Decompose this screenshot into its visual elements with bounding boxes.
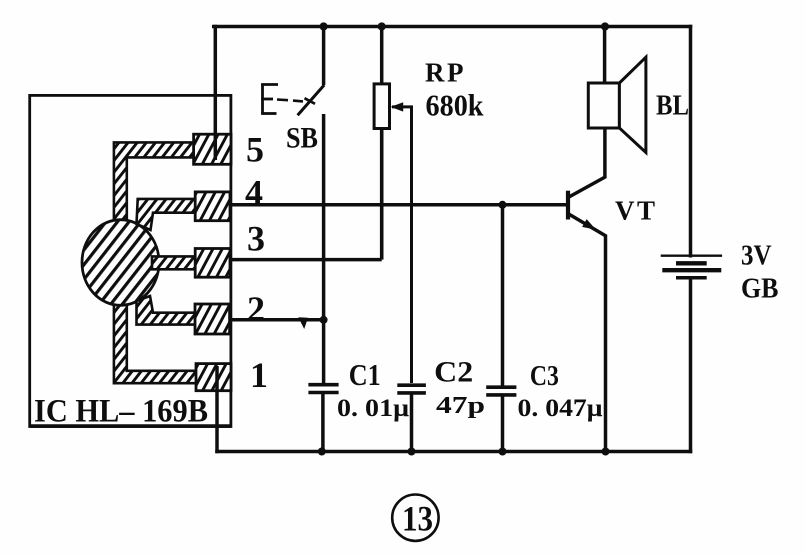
speaker BL horn [619,57,646,152]
IC outline box [30,95,231,426]
IC label HL-169B [34,394,208,430]
capacitor C1 plates [308,385,338,393]
svg-text:T: T [637,196,655,226]
wire left rail upper (top rail to IC pin 5 pad) [214,27,218,151]
svg-text:47p: 47p [436,392,485,419]
pad pin 4 [195,192,230,221]
svg-text:680k: 680k [426,88,485,123]
trace to pad 2 [137,296,197,325]
potentiometer RP: bottom lead to pin3 line [380,129,384,260]
label SB [286,122,318,155]
svg-text:1: 1 [250,355,268,395]
wire pin5 stub through pad [214,134,218,160]
svg-text:C2: C2 [434,356,473,389]
capacitor C3 bottom lead [501,396,505,451]
pin label 2 [247,289,265,329]
label C2 [434,356,473,389]
label 0.047u [518,393,604,422]
speaker BL box [588,83,619,128]
switch SB: lever [298,85,325,115]
node bottom rail / VT emitter [602,448,610,456]
wire right rail upper (top rail to battery +) [689,27,693,256]
IC chip blob (epoxy die) [82,220,159,306]
label VT [615,196,655,226]
svg-text:IC HL– 169B: IC HL– 169B [34,394,208,430]
svg-text:R: R [425,58,445,88]
svg-text:C1: C1 [349,358,381,392]
potentiometer RP: top lead [380,27,384,85]
battery GB plate 1 long [661,254,722,256]
svg-text:P: P [447,58,464,88]
pad pin 1 [196,364,231,391]
node bottom rail / C1 [318,448,326,456]
battery GB plate 3 long thick [662,268,721,272]
label GB [741,274,779,305]
wire right rail lower (battery - to bottom rail) [689,278,693,452]
node bottom rail / C3 [499,448,507,456]
pin label 3 [247,219,265,259]
svg-text:0. 047μ: 0. 047μ [518,393,604,422]
label 0.01u [337,393,410,422]
node top rail / RP [378,22,386,30]
label C1 [349,358,381,392]
label BL [656,90,689,122]
svg-text:2: 2 [247,289,265,329]
switch SB: lower contact wire down to C1 [322,114,326,383]
label 3V [741,241,772,272]
svg-text:13: 13 [402,499,433,539]
label C3 [530,361,559,392]
svg-text:BL: BL [656,90,689,122]
pin label 4 [245,173,263,213]
svg-text:5: 5 [246,130,264,170]
svg-text:3V: 3V [741,241,772,272]
figure number badge 13 [392,495,438,541]
trace to pad 3 [152,256,197,269]
wire pin3 line to RP bottom [230,258,382,262]
label 680k [426,88,485,123]
wire left rail lower (IC pin 1 pad to bottom rail) [215,377,219,452]
svg-text:SB: SB [286,122,318,155]
transistor VT collector [569,128,605,197]
svg-text:0. 01μ: 0. 01μ [337,393,410,422]
wire pin4 line to transistor base [230,203,567,207]
potentiometer RP: wiper arm wire [392,107,412,383]
wire pin1 stub through pad [215,366,219,391]
switch SB: upper contact wire [322,27,326,86]
switch SB: push actuator bracket [261,84,278,115]
battery GB plate 2 short thick [676,261,707,265]
wire top rail [214,25,691,29]
node pin4 line / C3 [499,201,507,209]
node bottom rail / C2 [408,448,416,456]
potentiometer RP: body [374,84,389,129]
label 47p [436,392,485,419]
pad pin 3 [195,249,230,278]
switch SB: actuator dashed link [277,98,315,104]
pin label 1 [250,355,268,395]
wire pin2 line to SB/C1 node [230,318,324,322]
node top rail / SB [320,22,328,30]
arrowhead on pin2 wire [298,317,308,329]
capacitor C1 bottom lead [321,394,325,452]
transistor VT emitter arrowhead [582,219,596,230]
node junction pin2/SB/C1 [320,316,328,324]
trace to pad 4 [137,199,197,230]
transistor VT base bar [566,191,570,220]
speaker BL top lead [603,27,607,84]
pad pin 5 [194,134,231,164]
potentiometer RP: wiper arrowhead [391,102,404,111]
IC copper spine with pin5 and pin1 traces (hatched C bracket) [114,142,197,383]
pin label 5 [246,130,264,170]
transistor VT emitter [569,214,606,451]
svg-text:3: 3 [247,219,265,259]
label RP [425,58,464,88]
capacitor C2 bottom lead [410,394,414,451]
svg-text:GB: GB [741,274,779,305]
svg-text:C3: C3 [530,361,559,392]
capacitor C3 plates [486,387,516,395]
capacitor C3 top lead from pin4 line [501,205,505,386]
pad pin 2 [195,304,230,334]
wire bottom rail [217,450,691,454]
capacitor C2 plates [397,385,426,393]
node top rail / BL [601,22,609,30]
svg-text:V: V [615,196,635,226]
battery GB plate 4 short [676,276,707,280]
